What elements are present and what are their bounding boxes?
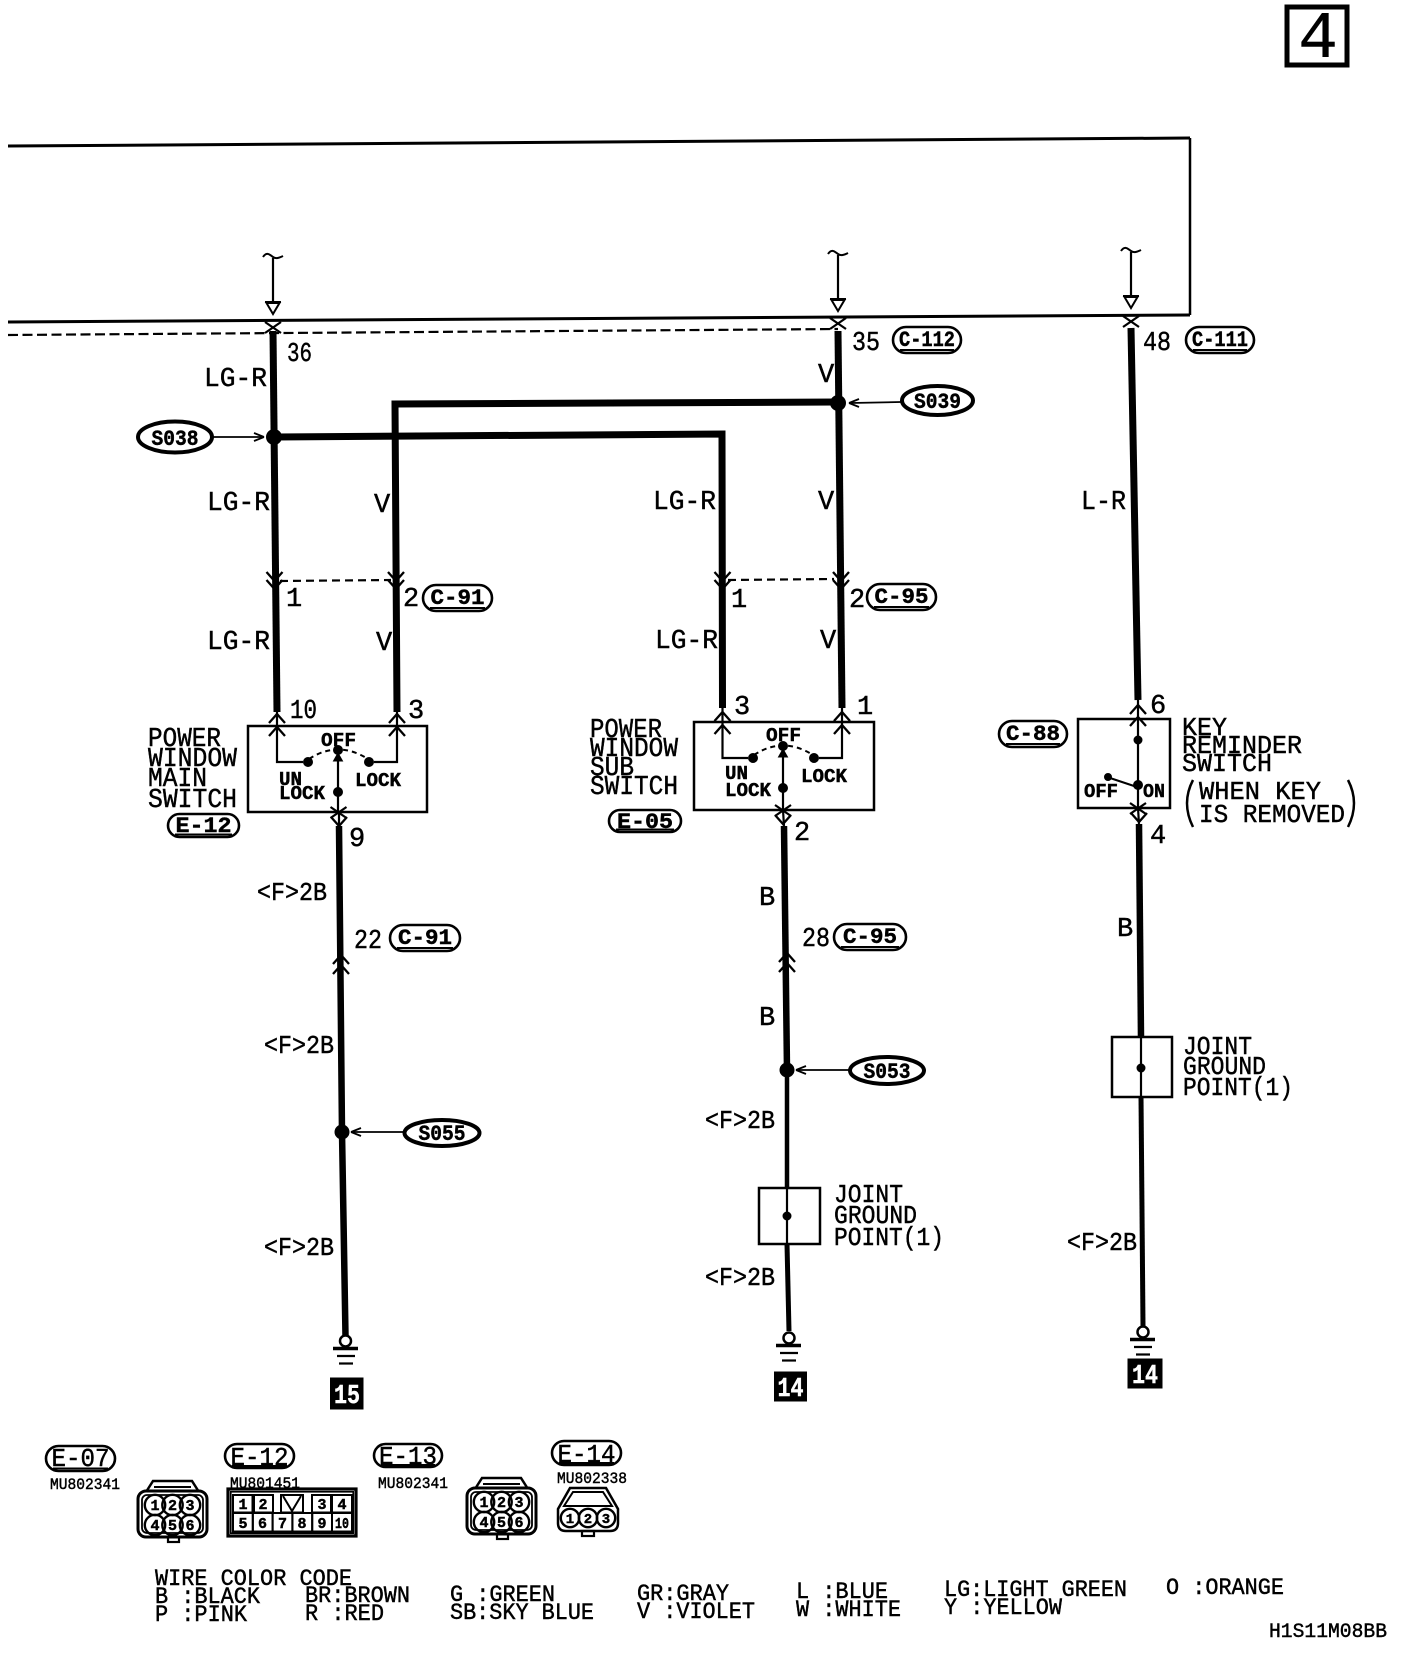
svg-text:2: 2	[849, 586, 865, 616]
svg-text:Y :YELLOW: Y :YELLOW	[944, 1595, 1062, 1621]
svg-text:LG-R: LG-R	[207, 628, 270, 658]
svg-text:6: 6	[185, 1518, 194, 1535]
svg-text:<F>2B: <F>2B	[257, 878, 327, 908]
svg-text:28: 28	[802, 925, 830, 955]
svg-text:LG-R: LG-R	[204, 365, 267, 395]
svg-text:<F>2B: <F>2B	[705, 1263, 775, 1293]
svg-text:2: 2	[794, 819, 810, 849]
svg-text:2: 2	[258, 1497, 267, 1514]
svg-text:<F>2B: <F>2B	[264, 1233, 334, 1263]
svg-text:V: V	[376, 629, 393, 659]
svg-text:POINT(1): POINT(1)	[1183, 1073, 1293, 1103]
svg-text:48: 48	[1143, 329, 1171, 359]
svg-text:5: 5	[497, 1515, 506, 1532]
svg-text:R :RED: R :RED	[305, 1601, 384, 1627]
svg-text:15: 15	[334, 1382, 360, 1412]
svg-text:SWITCH: SWITCH	[148, 786, 237, 816]
svg-text:5: 5	[238, 1516, 247, 1533]
svg-text:IS REMOVED: IS REMOVED	[1199, 800, 1345, 830]
svg-text:14: 14	[1132, 1362, 1158, 1392]
svg-text:6: 6	[514, 1515, 523, 1532]
svg-text:<F>2B: <F>2B	[264, 1031, 334, 1061]
svg-text:B: B	[1117, 915, 1133, 945]
svg-text:2: 2	[403, 585, 419, 615]
svg-text:<F>2B: <F>2B	[1067, 1228, 1137, 1258]
svg-text:LOCK: LOCK	[725, 780, 772, 802]
svg-text:LG-R: LG-R	[207, 489, 270, 519]
svg-text:SWITCH: SWITCH	[590, 773, 678, 803]
svg-text:4: 4	[1150, 822, 1166, 852]
svg-text:<F>2B: <F>2B	[705, 1106, 775, 1136]
svg-text:14: 14	[778, 1375, 804, 1405]
svg-text:10: 10	[290, 697, 317, 727]
svg-text:LG-R: LG-R	[655, 627, 718, 657]
svg-text:V: V	[374, 491, 391, 521]
svg-text:3: 3	[408, 697, 424, 727]
svg-text:S053: S053	[864, 1060, 911, 1085]
svg-text:7: 7	[278, 1516, 287, 1533]
svg-text:36: 36	[287, 340, 312, 370]
svg-text:3: 3	[185, 1498, 194, 1515]
svg-text:6: 6	[1150, 692, 1166, 722]
svg-text:3: 3	[514, 1495, 523, 1512]
svg-text:4: 4	[337, 1497, 346, 1514]
svg-text:5: 5	[168, 1518, 177, 1535]
svg-text:2: 2	[168, 1498, 177, 1515]
svg-text:E-13: E-13	[379, 1442, 437, 1472]
svg-text:OFF: OFF	[1084, 781, 1118, 803]
svg-text:35: 35	[852, 329, 880, 359]
svg-text:L-R: L-R	[1081, 488, 1126, 518]
svg-text:SWITCH: SWITCH	[1182, 749, 1272, 779]
svg-text:3: 3	[734, 693, 750, 723]
svg-text:4: 4	[150, 1518, 159, 1535]
svg-text:4: 4	[1298, 2, 1338, 77]
svg-text:6: 6	[258, 1516, 267, 1533]
svg-text:H1S11M08BB: H1S11M08BB	[1269, 1621, 1387, 1644]
svg-text:V: V	[818, 488, 835, 518]
svg-text:OFF: OFF	[321, 730, 356, 752]
svg-text:V: V	[818, 361, 835, 391]
svg-text:MU802338: MU802338	[557, 1470, 627, 1488]
svg-text:1: 1	[238, 1497, 247, 1514]
svg-text:LOCK: LOCK	[801, 766, 848, 788]
svg-text:E-14: E-14	[558, 1440, 616, 1470]
svg-text:1: 1	[566, 1512, 574, 1528]
svg-text:S039: S039	[914, 390, 961, 415]
svg-text:9: 9	[317, 1516, 326, 1533]
svg-text:LOCK: LOCK	[279, 783, 326, 805]
svg-text:8: 8	[297, 1516, 306, 1533]
svg-text:MU802341: MU802341	[378, 1475, 448, 1493]
svg-text:1: 1	[857, 693, 873, 723]
svg-text:S038: S038	[152, 427, 199, 452]
svg-text:ON: ON	[1143, 781, 1165, 803]
svg-text:B: B	[759, 1004, 775, 1034]
svg-text:9: 9	[349, 825, 365, 855]
svg-text:SB:SKY BLUE: SB:SKY BLUE	[450, 1600, 594, 1626]
svg-text:W :WHITE: W :WHITE	[796, 1597, 901, 1623]
svg-text:1: 1	[479, 1495, 488, 1512]
svg-text:LG-R: LG-R	[653, 488, 716, 518]
svg-text:3: 3	[317, 1497, 326, 1514]
svg-text:2: 2	[497, 1495, 506, 1512]
svg-text:V :VIOLET: V :VIOLET	[637, 1599, 755, 1625]
svg-text:POINT(1): POINT(1)	[834, 1223, 944, 1253]
svg-text:1: 1	[150, 1498, 159, 1515]
svg-text:V: V	[820, 627, 837, 657]
svg-text:MU802341: MU802341	[50, 1476, 120, 1494]
svg-text:1: 1	[731, 586, 747, 616]
svg-text:10: 10	[335, 1516, 349, 1533]
svg-text:E-05: E-05	[617, 810, 673, 835]
svg-text:O :ORANGE: O :ORANGE	[1166, 1575, 1284, 1601]
svg-text:3: 3	[602, 1512, 610, 1528]
svg-text:1: 1	[286, 585, 302, 615]
svg-text:B: B	[759, 884, 775, 914]
svg-text:4: 4	[479, 1515, 488, 1532]
svg-text:OFF: OFF	[766, 725, 801, 747]
svg-text:22: 22	[354, 927, 382, 957]
svg-text:2: 2	[584, 1512, 592, 1528]
svg-text:S055: S055	[419, 1122, 466, 1147]
svg-text:P :PINK: P :PINK	[155, 1602, 247, 1628]
svg-text:LOCK: LOCK	[355, 770, 402, 792]
svg-text:E-12: E-12	[231, 1443, 289, 1473]
